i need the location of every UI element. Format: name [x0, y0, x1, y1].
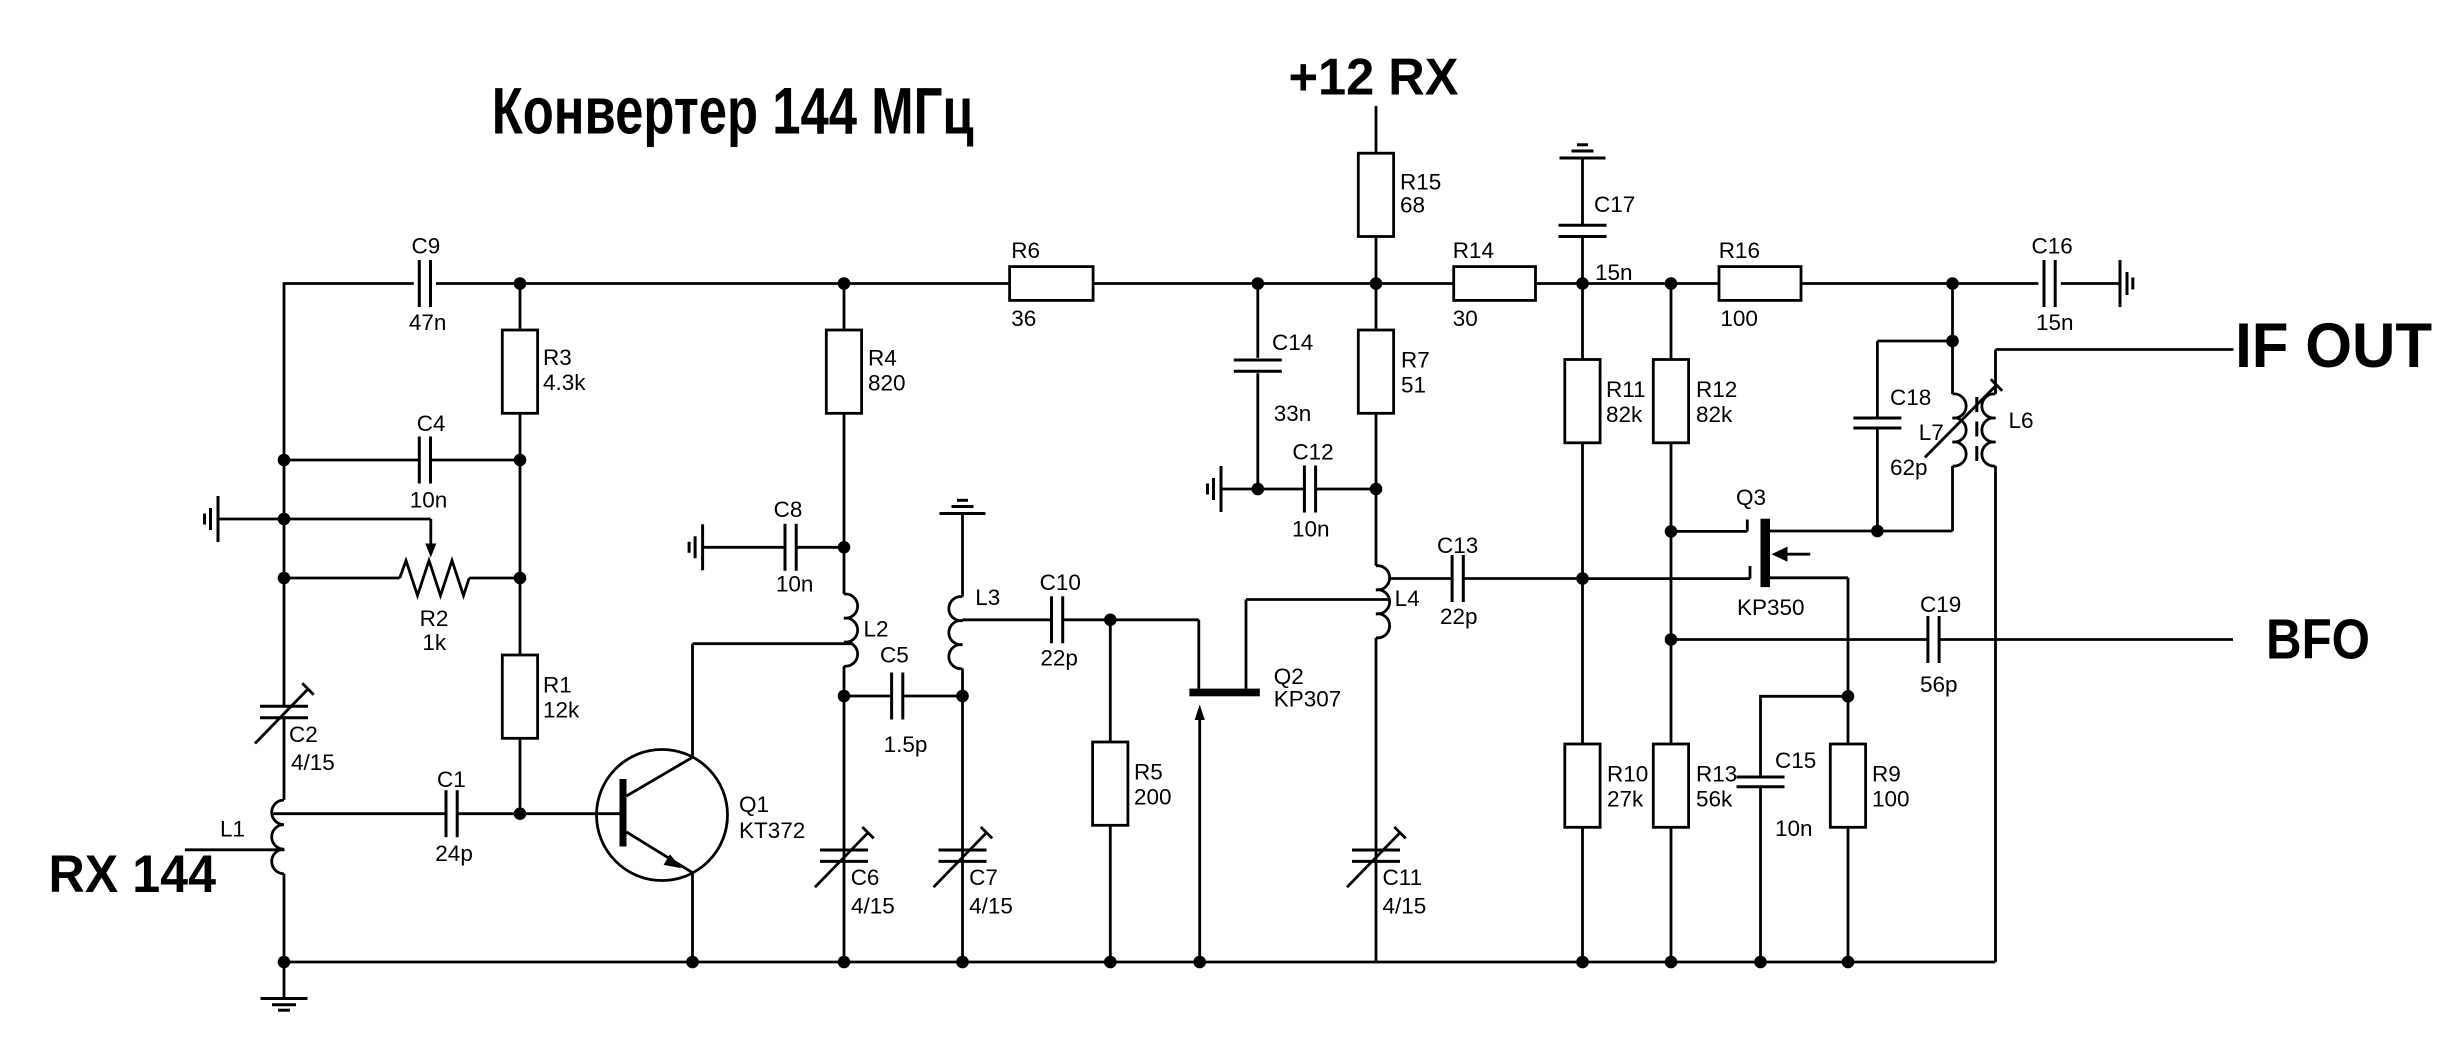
svg-text:R9: R9 — [1872, 762, 1901, 787]
svg-text:C7: C7 — [969, 865, 998, 890]
svg-text:C19: C19 — [1920, 592, 1961, 617]
svg-text:Q3: Q3 — [1736, 485, 1766, 510]
svg-text:82k: 82k — [1696, 402, 1733, 427]
svg-text:56k: 56k — [1696, 787, 1733, 812]
svg-text:R1: R1 — [543, 673, 572, 698]
svg-text:R13: R13 — [1696, 762, 1737, 787]
svg-text:R14: R14 — [1453, 238, 1494, 263]
svg-text:1k: 1k — [422, 630, 447, 655]
svg-text:KP350: KP350 — [1737, 595, 1805, 620]
svg-text:L7: L7 — [1919, 420, 1944, 445]
svg-text:4/15: 4/15 — [969, 894, 1013, 919]
svg-text:30: 30 — [1453, 306, 1478, 331]
svg-text:R10: R10 — [1607, 762, 1648, 787]
svg-text:C2: C2 — [289, 722, 318, 747]
svg-text:36: 36 — [1011, 306, 1036, 331]
svg-text:C15: C15 — [1775, 748, 1816, 773]
svg-text:47n: 47n — [409, 310, 447, 335]
svg-text:33n: 33n — [1274, 401, 1312, 426]
svg-text:56p: 56p — [1920, 672, 1958, 697]
svg-text:C18: C18 — [1890, 385, 1931, 410]
svg-text:RX 144: RX 144 — [49, 845, 217, 904]
svg-text:27k: 27k — [1607, 787, 1644, 812]
svg-text:62p: 62p — [1890, 455, 1928, 480]
svg-text:C13: C13 — [1437, 533, 1478, 558]
svg-text:C5: C5 — [880, 643, 909, 668]
svg-text:R12: R12 — [1696, 377, 1737, 402]
svg-text:1.5p: 1.5p — [884, 732, 928, 757]
svg-text:KT372: KT372 — [739, 818, 805, 843]
svg-text:820: 820 — [868, 371, 906, 396]
svg-text:C14: C14 — [1272, 330, 1313, 355]
svg-text:22p: 22p — [1040, 646, 1078, 671]
svg-text:C17: C17 — [1594, 192, 1635, 217]
svg-text:L3: L3 — [975, 585, 1000, 610]
svg-text:C4: C4 — [417, 411, 446, 436]
svg-text:C12: C12 — [1292, 440, 1333, 465]
svg-text:51: 51 — [1401, 373, 1426, 398]
svg-text:24p: 24p — [435, 841, 473, 866]
svg-text:L1: L1 — [220, 817, 245, 842]
svg-text:R3: R3 — [543, 345, 572, 370]
svg-text:R5: R5 — [1134, 760, 1163, 785]
svg-text:4/15: 4/15 — [851, 894, 895, 919]
svg-text:68: 68 — [1400, 193, 1425, 218]
svg-text:4/15: 4/15 — [1383, 894, 1427, 919]
svg-text:82k: 82k — [1606, 402, 1643, 427]
svg-text:+12 RX: +12 RX — [1289, 49, 1459, 107]
svg-text:R2: R2 — [420, 606, 449, 631]
svg-text:4.3k: 4.3k — [543, 370, 586, 395]
svg-text:C10: C10 — [1040, 570, 1081, 595]
svg-text:12k: 12k — [543, 698, 580, 723]
svg-text:R15: R15 — [1400, 170, 1441, 195]
svg-text:10n: 10n — [1292, 517, 1330, 542]
svg-text:C6: C6 — [851, 865, 880, 890]
svg-text:KP307: KP307 — [1274, 687, 1342, 712]
svg-text:L4: L4 — [1395, 586, 1420, 611]
svg-text:10n: 10n — [410, 488, 448, 513]
svg-text:Q1: Q1 — [739, 792, 769, 817]
svg-text:C1: C1 — [437, 767, 466, 792]
svg-text:IF OUT: IF OUT — [2235, 311, 2432, 381]
svg-text:15n: 15n — [2036, 310, 2074, 335]
svg-text:BFO: BFO — [2266, 608, 2370, 672]
svg-text:Конвертер 144 МГц: Конвертер 144 МГц — [492, 74, 974, 148]
svg-text:200: 200 — [1134, 785, 1172, 810]
svg-text:15n: 15n — [1595, 260, 1633, 285]
svg-text:R6: R6 — [1011, 238, 1040, 263]
svg-text:4/15: 4/15 — [291, 750, 335, 775]
svg-text:22p: 22p — [1440, 604, 1478, 629]
svg-text:C11: C11 — [1383, 865, 1423, 890]
svg-text:R16: R16 — [1719, 238, 1760, 263]
svg-text:C8: C8 — [774, 497, 803, 522]
svg-text:10n: 10n — [776, 572, 814, 597]
svg-text:L6: L6 — [2009, 408, 2034, 433]
svg-text:10n: 10n — [1775, 816, 1813, 841]
svg-text:R7: R7 — [1401, 348, 1430, 373]
svg-text:Q2: Q2 — [1274, 664, 1304, 689]
svg-text:100: 100 — [1720, 306, 1758, 331]
svg-text:C9: C9 — [412, 234, 441, 259]
svg-text:R11: R11 — [1606, 377, 1646, 402]
svg-text:100: 100 — [1872, 787, 1910, 812]
svg-text:R4: R4 — [868, 346, 897, 371]
svg-text:L2: L2 — [864, 617, 889, 642]
svg-text:C16: C16 — [2032, 234, 2073, 259]
